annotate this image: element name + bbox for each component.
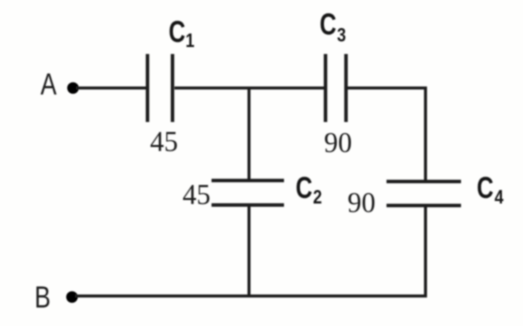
- wire A to C1: [76, 87, 146, 90]
- node B: [34, 280, 77, 315]
- svg-text:C: C: [477, 170, 494, 205]
- svg-text:B: B: [34, 280, 50, 315]
- wire C1 to C3: [175, 87, 326, 90]
- capacitor C3: [326, 54, 347, 122]
- wire C3 to right corner: [347, 87, 427, 90]
- node A: [40, 67, 78, 102]
- svg-text:90: 90: [348, 188, 376, 219]
- svg-text:C: C: [296, 170, 313, 205]
- svg-text:90: 90: [324, 128, 352, 159]
- wire C2 to bottom: [248, 205, 251, 298]
- wire B to right corner: [75, 295, 427, 298]
- svg-text:C: C: [320, 6, 337, 41]
- svg-text:2: 2: [313, 186, 322, 208]
- wire right branch upper: [424, 87, 427, 182]
- label C4: [477, 170, 504, 208]
- label C2: [296, 170, 323, 208]
- capacitor C1: [148, 54, 173, 122]
- svg-text:A: A: [40, 67, 57, 102]
- wire junction to C2: [248, 87, 251, 181]
- svg-text:4: 4: [495, 186, 504, 208]
- capacitor C4: [387, 182, 462, 206]
- label C1: [169, 14, 195, 52]
- svg-text:45: 45: [150, 127, 178, 158]
- label C3: [320, 6, 347, 46]
- svg-text:3: 3: [337, 24, 346, 46]
- svg-text:45: 45: [183, 180, 211, 211]
- capacitor C2: [212, 181, 285, 206]
- wire right branch lower: [424, 206, 427, 298]
- svg-text:1: 1: [186, 30, 195, 52]
- svg-text:C: C: [169, 14, 186, 49]
